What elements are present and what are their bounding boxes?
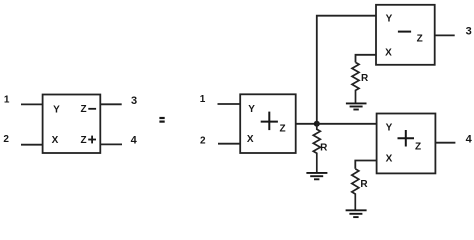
- svg-text:1: 1: [4, 95, 10, 106]
- U4 pin label X: [386, 154, 393, 165]
- multiplier U1 body: [43, 95, 101, 154]
- multiplier U4 body (bottom right): [377, 114, 436, 174]
- svg-text:3: 3: [466, 26, 472, 38]
- wire: node A to U4 pin Y: [317, 123, 377, 125]
- ground (below R2): [346, 103, 367, 109]
- svg-text:R: R: [360, 179, 368, 190]
- terminal 2 (left block): [3, 134, 9, 145]
- svg-text:Z: Z: [417, 34, 423, 45]
- terminal 1 (right circuit): [200, 94, 206, 105]
- terminal 1 (left block): [4, 95, 10, 106]
- wire: terminal 1 to U2 pin Y: [218, 103, 241, 105]
- svg-text:Z: Z: [80, 104, 86, 115]
- svg-text:1: 1: [200, 94, 206, 105]
- terminal 4 (left block): [131, 134, 138, 146]
- wire: U1 pin Z+ to terminal 4: [100, 143, 122, 145]
- svg-text:Z: Z: [80, 135, 86, 146]
- terminal 3 (left block): [131, 95, 137, 107]
- svg-text:Y: Y: [386, 14, 393, 25]
- U1 pin label Z-: [80, 104, 96, 115]
- wire: terminal 2 to U1 pin X: [21, 144, 43, 146]
- ground (below R3): [346, 210, 367, 217]
- U3 minus-Z function symbol: [398, 32, 423, 45]
- svg-text:2: 2: [3, 134, 9, 145]
- svg-text:Y: Y: [53, 105, 60, 116]
- svg-text:2: 2: [200, 135, 206, 146]
- wire: U2 output to node A: [296, 123, 317, 125]
- svg-text:Y: Y: [248, 104, 255, 115]
- svg-text:X: X: [385, 47, 392, 58]
- ground (below R1): [306, 173, 327, 179]
- wire: U3 output to terminal 3: [435, 34, 455, 36]
- svg-text:R: R: [361, 73, 369, 84]
- svg-text:X: X: [386, 154, 393, 165]
- multiplier U3 body (top right): [376, 5, 435, 65]
- node A junction dot: [314, 121, 320, 127]
- multiplier U2 body: [240, 94, 296, 153]
- terminal 2 (right circuit): [200, 135, 206, 146]
- U4 pin label Y: [386, 123, 393, 134]
- U1 pin label Z+: [80, 135, 96, 146]
- svg-text:Z: Z: [415, 142, 421, 153]
- terminal 4 (right circuit): [466, 133, 473, 145]
- U1 pin label Y: [53, 105, 60, 116]
- equals sign: [159, 118, 164, 122]
- U1 pin label X: [52, 135, 59, 146]
- svg-text:Z: Z: [279, 124, 285, 135]
- wire: node A up and over to U3 pin Y: [317, 16, 376, 124]
- svg-text:4: 4: [131, 134, 138, 146]
- svg-text:R: R: [320, 143, 328, 154]
- resistor R3: [352, 169, 369, 210]
- svg-text:4: 4: [466, 133, 473, 145]
- svg-text:3: 3: [131, 95, 137, 107]
- terminal 3 (right circuit): [466, 26, 472, 38]
- wire: terminal 2 to U2 pin X: [218, 143, 241, 145]
- U2 pin label X: [247, 134, 254, 145]
- svg-text:X: X: [247, 134, 254, 145]
- U3 pin label X: [385, 47, 392, 58]
- wire: U1 pin Z- to terminal 3: [100, 103, 121, 105]
- wire: U4 pin X to resistor R3: [355, 161, 377, 169]
- svg-text:X: X: [52, 135, 59, 146]
- resistor R2: [352, 62, 369, 102]
- wire: terminal 1 to U1 pin Y: [21, 103, 43, 105]
- svg-text:Y: Y: [386, 123, 393, 134]
- U2 pin label Y: [248, 104, 255, 115]
- wire: U4 output to terminal 4: [435, 142, 455, 144]
- resistor R1 (node A to ground): [313, 124, 328, 173]
- U3 pin label Y: [386, 14, 393, 25]
- wire: U3 pin X to resistor R2: [356, 55, 377, 63]
- U2 plus-Z function symbol: [261, 112, 286, 135]
- U4 plus-Z function symbol: [398, 130, 422, 153]
